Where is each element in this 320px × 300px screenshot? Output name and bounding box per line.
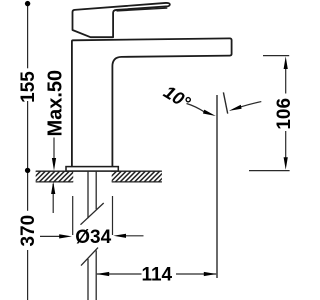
angle right leader with arrow: [241, 102, 261, 107]
supply pipe lower section: [88, 250, 96, 300]
svg-text:370: 370: [18, 215, 39, 247]
diameter 34 right leader arrow: [125, 235, 144, 237]
lever underside edge line: [117, 8, 168, 11]
svg-text:Ø34: Ø34: [75, 227, 111, 248]
dimension 155/370 vertical line: [27, 3, 29, 300]
faucet base flange: [66, 167, 118, 172]
outlet 10 degree tilted line: [223, 92, 227, 113]
dimension 106 top extension line: [263, 55, 289, 57]
dimension dot at counter level: [25, 168, 30, 173]
angle leader curved with arrow: [187, 104, 205, 113]
dimension dot top: [25, 1, 30, 6]
diameter 34 left leader arrow: [40, 235, 60, 237]
counter left section hatching: [25, 171, 84, 182]
Max.50 dimension line lower with up arrow: [52, 184, 54, 213]
svg-text:Max.50: Max.50: [44, 70, 66, 137]
faucet body and spout outline: [72, 38, 232, 166]
counter right section outline: [112, 171, 162, 182]
faucet lever handle and cartridge housing: [73, 3, 170, 37]
Max.50 dimension line upper with down arrow: [53, 138, 55, 161]
counter left section outline: [36, 171, 73, 182]
pipe break slash upper: [81, 203, 104, 225]
dimension 106 bottom extension line: [249, 170, 290, 172]
supply pipe upper section: [88, 171, 96, 218]
diameter 34 right extension line: [112, 196, 114, 235]
dimension 114 line left segment with arrow: [97, 273, 142, 275]
counter right section hatching: [101, 171, 169, 182]
outlet datum vertical line: [216, 95, 218, 278]
svg-text:106: 106: [274, 98, 295, 130]
pipe break slash lower: [81, 248, 98, 266]
svg-text:114: 114: [141, 264, 172, 285]
dimension 106 line with up arrow: [285, 68, 287, 94]
dimension 114 line right segment with arrow: [176, 273, 216, 275]
diameter 34 left extension line: [72, 196, 74, 235]
dimension 106 line lower with down arrow: [285, 131, 287, 158]
svg-text:155: 155: [18, 71, 39, 103]
